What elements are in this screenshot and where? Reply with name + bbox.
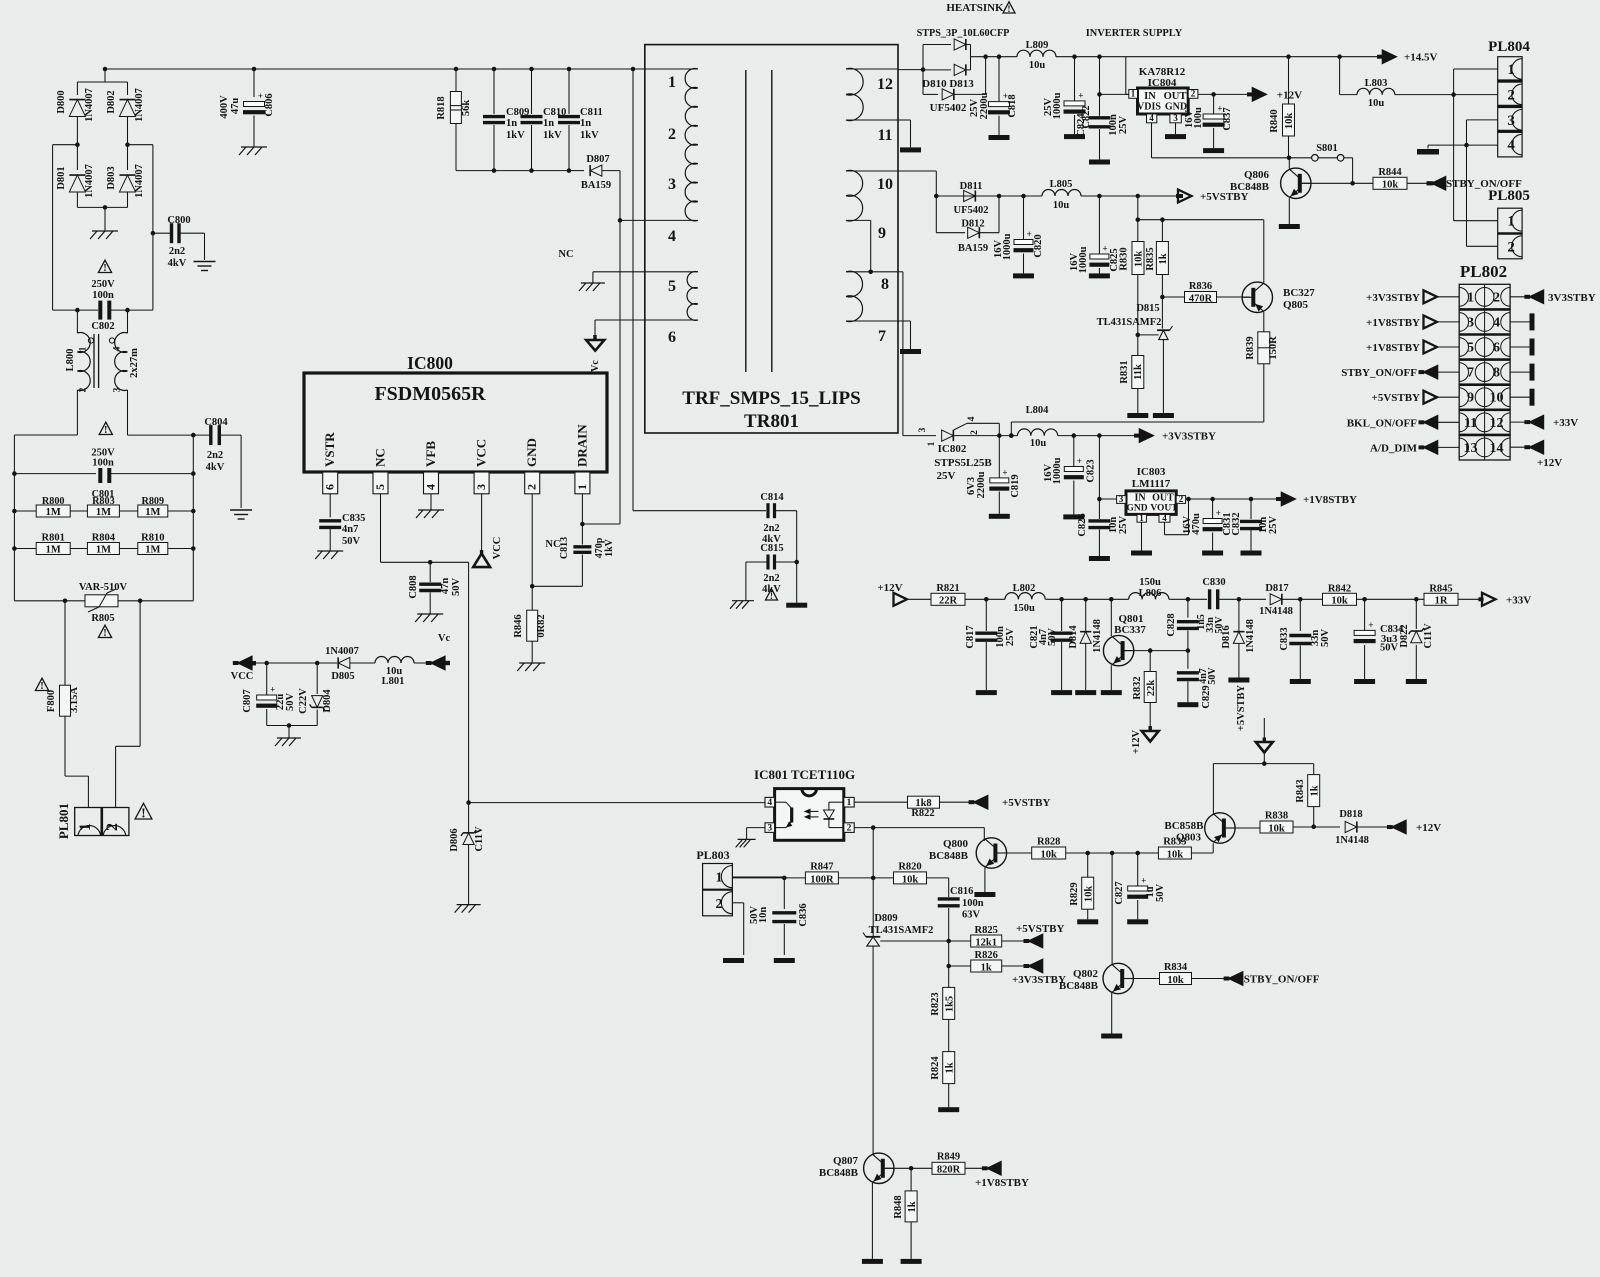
svg-text:+: +: [258, 91, 263, 101]
wire: [632, 69, 634, 511]
wire PL804 pin4 gnd: [1428, 145, 1498, 148]
svg-text:D817: D817: [1265, 583, 1288, 594]
PL802 separator: [1459, 358, 1510, 361]
svg-text:50V: 50V: [1320, 629, 1331, 648]
transistor Q803: [1164, 764, 1260, 844]
svg-text:1n: 1n: [543, 118, 554, 129]
svg-text:11: 11: [877, 127, 892, 144]
resistor R842: [1323, 584, 1425, 607]
svg-text:R825: R825: [975, 925, 998, 936]
ground: [1089, 160, 1110, 165]
resistor R826: [971, 950, 1024, 973]
resistor R820: [894, 862, 949, 898]
svg-text:+12V: +12V: [877, 582, 902, 594]
svg-text:2n2: 2n2: [763, 573, 779, 584]
PL802 gnd stub: [1510, 339, 1534, 356]
wire R839 to 3V3: [1009, 422, 1264, 438]
ground: [974, 892, 995, 897]
svg-text:1: 1: [1507, 62, 1515, 78]
svg-text:50V: 50V: [342, 536, 361, 547]
svg-text:3V3STBY: 3V3STBY: [1548, 292, 1596, 304]
svg-text:R810: R810: [141, 533, 164, 544]
svg-text:TL431SAMF2: TL431SAMF2: [869, 925, 934, 936]
secondary winding 10-9: [846, 170, 898, 242]
svg-text:R803: R803: [92, 496, 115, 507]
svg-text:4: 4: [767, 798, 772, 808]
capacitor C830: [1202, 577, 1241, 609]
transistor Q807: [819, 1153, 914, 1259]
svg-text:1k5: 1k5: [944, 996, 955, 1012]
wire VOUT loop: [1165, 497, 1191, 535]
svg-text:VCC: VCC: [492, 537, 503, 560]
svg-text:+: +: [270, 685, 275, 695]
svg-text:9: 9: [878, 225, 886, 242]
net STBY_ON/OFF: [1427, 177, 1523, 190]
svg-text:25V: 25V: [1268, 516, 1279, 535]
resistor R833: [1158, 837, 1213, 861]
svg-text:50V: 50V: [1207, 667, 1218, 685]
svg-text:OUT: OUT: [1164, 91, 1187, 102]
wire: [252, 661, 337, 666]
wire pin5 to C808: [381, 494, 469, 803]
zener D822: [1399, 599, 1434, 679]
capacitor C801: [12, 468, 196, 500]
ground: [1101, 690, 1122, 695]
svg-text:D805: D805: [331, 671, 354, 682]
ground: [275, 738, 301, 746]
svg-text:4: 4: [1149, 113, 1154, 123]
svg-text:4: 4: [1162, 513, 1167, 523]
svg-text:150u: 150u: [1139, 577, 1161, 588]
ground: [901, 1259, 922, 1264]
svg-text:6: 6: [668, 329, 676, 346]
net +5VSTBY: [1016, 923, 1065, 947]
ground: [1228, 678, 1249, 683]
svg-text:63V: 63V: [962, 910, 981, 921]
svg-text:C833: C833: [1279, 627, 1290, 650]
svg-text:400V: 400V: [219, 95, 230, 119]
net +14.5V: [1377, 50, 1438, 63]
wire: [456, 168, 571, 173]
ground: [239, 147, 267, 155]
svg-text:22R: 22R: [939, 596, 958, 607]
svg-text:C813: C813: [559, 537, 570, 559]
svg-text:47n: 47n: [440, 578, 451, 595]
svg-text:1k: 1k: [944, 1062, 955, 1073]
svg-text:2: 2: [1507, 87, 1515, 103]
svg-text:R838: R838: [1265, 811, 1288, 822]
svg-text:Vc: Vc: [438, 633, 451, 644]
varistor R805: [14, 582, 193, 624]
svg-text:1M: 1M: [46, 507, 61, 518]
wire to pin4: [620, 219, 698, 221]
wire pin3 gnd: [747, 828, 765, 840]
svg-text:100n: 100n: [92, 458, 114, 469]
svg-text:25V: 25V: [1005, 628, 1016, 647]
svg-text:5: 5: [1467, 341, 1474, 356]
svg-text:GND: GND: [524, 438, 539, 467]
capacitor C831: [1182, 499, 1242, 551]
wire: [946, 941, 970, 968]
svg-text:VCC: VCC: [474, 439, 489, 467]
wire: [971, 54, 1018, 59]
svg-text:1N4007: 1N4007: [134, 88, 145, 122]
capacitor C829: [1177, 651, 1218, 709]
ground: [989, 514, 1010, 519]
wire PL803 pin2: [732, 903, 743, 955]
svg-text:BC337: BC337: [1114, 624, 1146, 636]
svg-text:10k: 10k: [1083, 886, 1094, 903]
wire: [1150, 648, 1190, 653]
svg-text:A/D_DIM: A/D_DIM: [1370, 442, 1418, 454]
net A/D_DIM: [1370, 441, 1459, 454]
capacitor C815: [746, 543, 799, 595]
diode D816: [1221, 599, 1256, 677]
inductor L802: [1005, 583, 1129, 614]
diode D805: [325, 646, 375, 682]
svg-text:3: 3: [474, 484, 488, 490]
net VCC flag: [231, 657, 256, 682]
svg-text:!: !: [103, 628, 106, 639]
svg-text:C823: C823: [1086, 459, 1097, 482]
svg-text:+: +: [1103, 244, 1108, 254]
diode UF5402: [923, 57, 986, 114]
svg-text:100n: 100n: [92, 290, 114, 301]
svg-text:150u: 150u: [1013, 603, 1035, 614]
resistor R838: [1235, 811, 1340, 835]
svg-text:4: 4: [1493, 315, 1500, 330]
svg-text:!: !: [103, 263, 106, 274]
svg-text:C817: C817: [965, 625, 976, 648]
diode D807: [569, 154, 620, 191]
IC800 pin 6 VSTR: [322, 432, 338, 494]
capacitor C835: [319, 494, 365, 551]
transistor Q800: [929, 838, 1032, 892]
diode IC802: [918, 416, 999, 482]
wire: [12, 509, 196, 514]
svg-text:UF5402: UF5402: [930, 102, 967, 114]
connector PL804: [1488, 39, 1530, 157]
zener D806: [449, 800, 485, 904]
wire PL804 pin2: [1454, 94, 1498, 96]
resistor R825: [949, 925, 1024, 948]
wire pin2 net: [854, 825, 984, 937]
svg-text:7: 7: [878, 328, 886, 345]
wire pin4 line: [469, 802, 765, 804]
svg-text:LM1117: LM1117: [1132, 478, 1171, 490]
svg-text:1: 1: [668, 74, 676, 91]
svg-text:+3V3STBY: +3V3STBY: [1366, 292, 1420, 304]
ground: [786, 603, 807, 608]
inductor L800: [65, 333, 140, 393]
svg-text:2: 2: [79, 387, 89, 392]
svg-text:+12V: +12V: [1277, 90, 1302, 102]
svg-text:Q806: Q806: [1244, 169, 1270, 181]
capacitor C828: [1166, 599, 1225, 650]
svg-text:VOUT: VOUT: [1150, 504, 1178, 514]
capacitor C832: [1240, 499, 1279, 551]
ground: [1013, 273, 1034, 278]
svg-text:NC: NC: [373, 448, 388, 467]
svg-text:Q800: Q800: [943, 838, 969, 850]
wire PL803 pin1: [732, 876, 784, 878]
warning triangle: [98, 260, 111, 274]
transistor Q802: [1059, 853, 1160, 1034]
ground: [1077, 919, 1098, 924]
svg-text:R820: R820: [898, 862, 921, 873]
svg-text:+1V8STBY: +1V8STBY: [975, 1177, 1029, 1189]
diode D815 TL431: [1097, 297, 1173, 413]
svg-text:25V: 25V: [1118, 516, 1129, 535]
svg-text:C830: C830: [1202, 577, 1225, 588]
label NC: [558, 249, 573, 260]
svg-text:25V: 25V: [937, 470, 956, 482]
svg-text:OUT: OUT: [1152, 493, 1174, 504]
IC800 pin 4 VFB: [423, 441, 439, 494]
svg-text:+5VSTBY: +5VSTBY: [1002, 797, 1051, 809]
svg-text:1n: 1n: [506, 118, 517, 129]
svg-text:2200u: 2200u: [976, 471, 987, 498]
svg-text:1000u: 1000u: [1052, 457, 1063, 484]
resistor R821: [931, 583, 1005, 607]
wire: [633, 510, 766, 512]
node: [103, 67, 636, 72]
svg-text:2: 2: [715, 897, 722, 912]
svg-text:BC848B: BC848B: [819, 1167, 859, 1179]
net +1V8STBY: [1276, 493, 1357, 506]
ground: [1203, 148, 1224, 153]
svg-text:100n: 100n: [962, 898, 984, 909]
svg-text:D812: D812: [961, 219, 984, 230]
svg-text:D801: D801: [56, 166, 67, 189]
svg-text:R844: R844: [1378, 167, 1402, 178]
svg-text:+: +: [1027, 229, 1032, 239]
svg-text:R821: R821: [936, 583, 959, 594]
svg-text:1N4007: 1N4007: [84, 164, 95, 198]
svg-text:R822: R822: [911, 808, 934, 819]
resistor R846: [513, 586, 547, 663]
ground: [1354, 679, 1375, 684]
inductor L804: [1018, 405, 1139, 449]
svg-text:1N4007: 1N4007: [134, 164, 145, 198]
fuse F800: [46, 685, 80, 716]
svg-text:D822: D822: [1399, 624, 1410, 647]
svg-text:+5VSTBY: +5VSTBY: [1372, 392, 1421, 404]
svg-text:11: 11: [1464, 416, 1477, 431]
svg-text:10u: 10u: [1029, 60, 1046, 71]
ground: [1089, 273, 1110, 278]
svg-text:R845: R845: [1429, 584, 1452, 595]
PL802 gnd stub: [1510, 389, 1534, 406]
wire pin5 gnd: [592, 272, 594, 283]
svg-text:TCET110G: TCET110G: [791, 767, 855, 782]
diode D800: [56, 88, 95, 145]
resistor R800: [36, 496, 70, 518]
inductor L809: [1017, 40, 1125, 71]
svg-text:D818: D818: [1339, 809, 1362, 820]
wire PL804 pin1: [1451, 69, 1497, 221]
ground: [579, 283, 605, 291]
label STPS_3P_10L60CFP: [917, 28, 1010, 39]
resistor R822: [854, 796, 974, 819]
svg-text:C808: C808: [408, 575, 419, 598]
svg-text:STPS5L25B: STPS5L25B: [934, 457, 992, 469]
svg-text:!: !: [1007, 5, 1010, 15]
svg-text:2: 2: [525, 484, 539, 490]
ground: [1290, 679, 1311, 684]
resistor R844: [1353, 167, 1432, 191]
svg-text:12: 12: [1490, 416, 1504, 431]
ground: [1051, 690, 1072, 695]
svg-text:D809: D809: [874, 913, 897, 924]
svg-text:IC802: IC802: [938, 443, 967, 455]
svg-text:VCC: VCC: [231, 671, 254, 682]
svg-text:3: 3: [113, 387, 123, 392]
svg-text:1M: 1M: [46, 545, 61, 556]
svg-text:+5VSTBY: +5VSTBY: [1016, 923, 1065, 935]
wire: [746, 562, 797, 603]
svg-text:3: 3: [1119, 494, 1124, 504]
warning triangle: [135, 803, 152, 820]
diode D803: [106, 145, 145, 208]
svg-text:10k: 10k: [1041, 849, 1058, 860]
svg-text:50V: 50V: [1047, 628, 1058, 647]
resistor R803: [87, 496, 119, 518]
net +12V in: [877, 582, 931, 606]
wire: [105, 69, 646, 97]
svg-text:C815: C815: [760, 543, 783, 554]
wire IC803 gnd: [1141, 522, 1143, 550]
PL802 separator: [1459, 434, 1510, 437]
opto IC801: [754, 767, 855, 840]
diode D813: [922, 64, 974, 90]
svg-text:R831: R831: [1119, 360, 1130, 383]
wire: [12, 546, 196, 551]
svg-text:1k: 1k: [981, 962, 992, 973]
capacitor C836: [749, 878, 809, 955]
wire rail 5v: [936, 194, 1042, 199]
svg-text:1kV: 1kV: [580, 130, 599, 141]
svg-text:D807: D807: [586, 154, 609, 165]
diode D802: [106, 88, 145, 145]
net +12V: [1247, 88, 1302, 102]
svg-text:DRAIN: DRAIN: [574, 424, 589, 467]
svg-text:50V: 50V: [1155, 884, 1166, 903]
secondary winding 12-11: [846, 68, 898, 144]
capacitor C816: [938, 886, 984, 941]
resistor R818: [436, 69, 472, 171]
wire: [77, 205, 127, 231]
capacitor C802: [53, 301, 153, 332]
ground: [194, 262, 216, 271]
capacitor C824: [1076, 113, 1129, 160]
svg-text:50V: 50V: [1380, 643, 1399, 654]
svg-text:R847: R847: [810, 862, 833, 873]
svg-text:FSDM0565R: FSDM0565R: [374, 383, 486, 405]
wire R847 rail: [732, 876, 805, 881]
svg-text:4kV: 4kV: [168, 258, 187, 269]
svg-text:D806: D806: [449, 828, 460, 851]
regulator IC804: [1129, 66, 1198, 123]
svg-text:R809: R809: [141, 496, 164, 507]
svg-text:C807: C807: [242, 689, 253, 712]
net Vc pin6: [586, 320, 604, 372]
svg-text:25V: 25V: [1118, 116, 1129, 135]
svg-text:3: 3: [1173, 113, 1178, 123]
resistor R843: [1295, 764, 1320, 829]
svg-text:+: +: [1368, 620, 1373, 630]
capacitor C833: [1279, 599, 1331, 679]
svg-text:D816: D816: [1221, 625, 1232, 648]
svg-text:!: !: [104, 425, 107, 436]
svg-text:R804: R804: [92, 533, 116, 544]
net +1V8STBY: [1366, 315, 1459, 328]
svg-text:C11V: C11V: [1423, 623, 1434, 649]
svg-text:C806: C806: [264, 93, 275, 116]
svg-text:F800: F800: [46, 690, 57, 712]
svg-text:10u: 10u: [1030, 438, 1047, 449]
svg-text:L806: L806: [1139, 588, 1162, 599]
svg-text:R805: R805: [91, 613, 114, 624]
svg-text:+1V8STBY: +1V8STBY: [1366, 342, 1420, 354]
net +5VSTBY vert: [1236, 684, 1273, 765]
ground: [1127, 413, 1148, 418]
svg-text:+12V: +12V: [1131, 730, 1142, 754]
connector PL803: [696, 848, 732, 916]
resistor R835: [1145, 220, 1169, 300]
svg-text:2200u: 2200u: [979, 92, 990, 119]
wire IC803 in: [1097, 436, 1117, 519]
svg-text:4: 4: [424, 484, 438, 490]
svg-text:C804: C804: [204, 417, 228, 428]
diode D814: [1068, 599, 1103, 690]
PL802 separator: [1459, 308, 1510, 311]
svg-text:150R: 150R: [1268, 336, 1279, 360]
svg-text:1: 1: [847, 798, 852, 808]
svg-text:BC858B: BC858B: [1164, 820, 1204, 832]
label 250V 100n: [91, 279, 115, 301]
svg-text:BC327: BC327: [1283, 287, 1315, 299]
svg-text:2: 2: [1507, 239, 1515, 255]
capacitor C810: [521, 69, 567, 171]
svg-text:TRF_SMPS_15_LIPS: TRF_SMPS_15_LIPS: [682, 388, 860, 409]
svg-text:STBY_ON/OFF: STBY_ON/OFF: [1341, 367, 1417, 379]
svg-text:!: !: [40, 681, 43, 692]
svg-text:C814: C814: [760, 492, 784, 503]
svg-text:1: 1: [1467, 290, 1474, 305]
svg-text:6: 6: [323, 484, 337, 490]
svg-text:D815: D815: [1136, 303, 1159, 314]
capacitor C806: [219, 91, 275, 147]
svg-text:10u: 10u: [1053, 200, 1070, 211]
wire 5v rail: [1213, 763, 1313, 765]
wire pin2: [530, 494, 583, 589]
svg-text:10: 10: [1490, 391, 1504, 406]
resistor R840: [1269, 57, 1295, 158]
svg-text:C835: C835: [342, 513, 365, 524]
ground: [1131, 551, 1152, 556]
svg-text:STBY_ON/OFF: STBY_ON/OFF: [1244, 974, 1320, 986]
svg-text:5: 5: [668, 278, 676, 295]
svg-text:1n: 1n: [580, 118, 591, 129]
wire pin10: [898, 171, 939, 198]
svg-text:10k: 10k: [1134, 251, 1145, 268]
net +1V8STBY: [1366, 341, 1459, 354]
IC800 pin 3 VCC: [474, 439, 490, 494]
net +33V right: [1510, 416, 1578, 429]
switch S801: [1289, 143, 1355, 186]
IC800 pin 5 NC: [373, 448, 389, 494]
